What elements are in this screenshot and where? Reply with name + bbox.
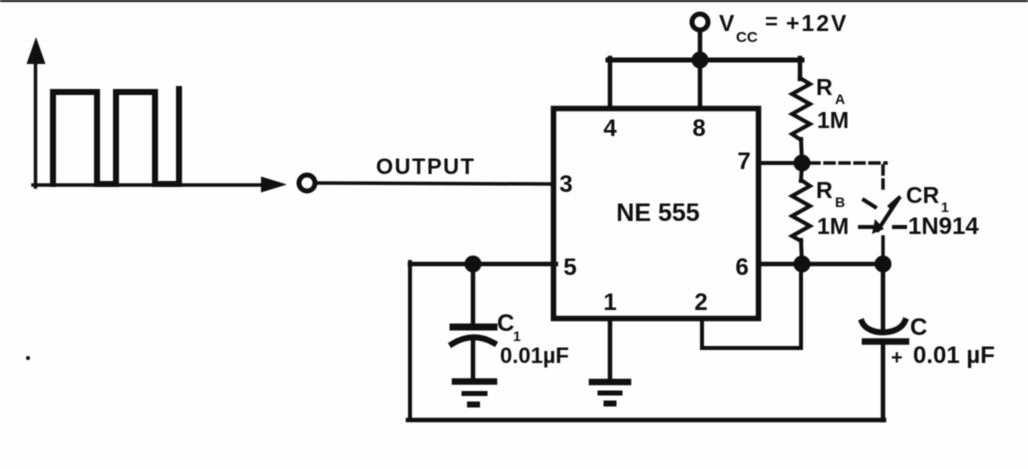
svg-text:+: + <box>891 347 903 369</box>
svg-text:B: B <box>835 194 845 210</box>
svg-text:0.01 µF: 0.01 µF <box>913 342 995 369</box>
svg-text:NE 555: NE 555 <box>616 199 699 227</box>
svg-text:8: 8 <box>692 115 705 142</box>
svg-text:1: 1 <box>603 289 616 316</box>
svg-text:3: 3 <box>559 171 572 198</box>
svg-text:6: 6 <box>735 254 748 281</box>
svg-text:2: 2 <box>694 289 707 316</box>
svg-text:=: = <box>765 9 778 34</box>
svg-text:5: 5 <box>563 254 576 281</box>
svg-text:R: R <box>816 177 833 203</box>
svg-text:C: C <box>910 314 927 341</box>
svg-text:1M: 1M <box>817 213 849 239</box>
svg-text:R: R <box>816 74 833 100</box>
svg-text:C: C <box>497 310 514 337</box>
svg-text:7: 7 <box>737 148 750 175</box>
svg-text:+12V: +12V <box>786 10 848 36</box>
svg-text:A: A <box>835 91 845 107</box>
svg-text:1: 1 <box>513 328 521 344</box>
svg-text:0.01µF: 0.01µF <box>500 343 569 368</box>
svg-text:V: V <box>719 10 735 36</box>
svg-text:4: 4 <box>603 115 617 142</box>
svg-text:CR: CR <box>906 182 940 208</box>
svg-text:OUTPUT: OUTPUT <box>376 154 475 179</box>
svg-text:1M: 1M <box>817 107 849 133</box>
svg-text:1N914: 1N914 <box>908 213 979 240</box>
svg-text:CC: CC <box>736 29 758 46</box>
